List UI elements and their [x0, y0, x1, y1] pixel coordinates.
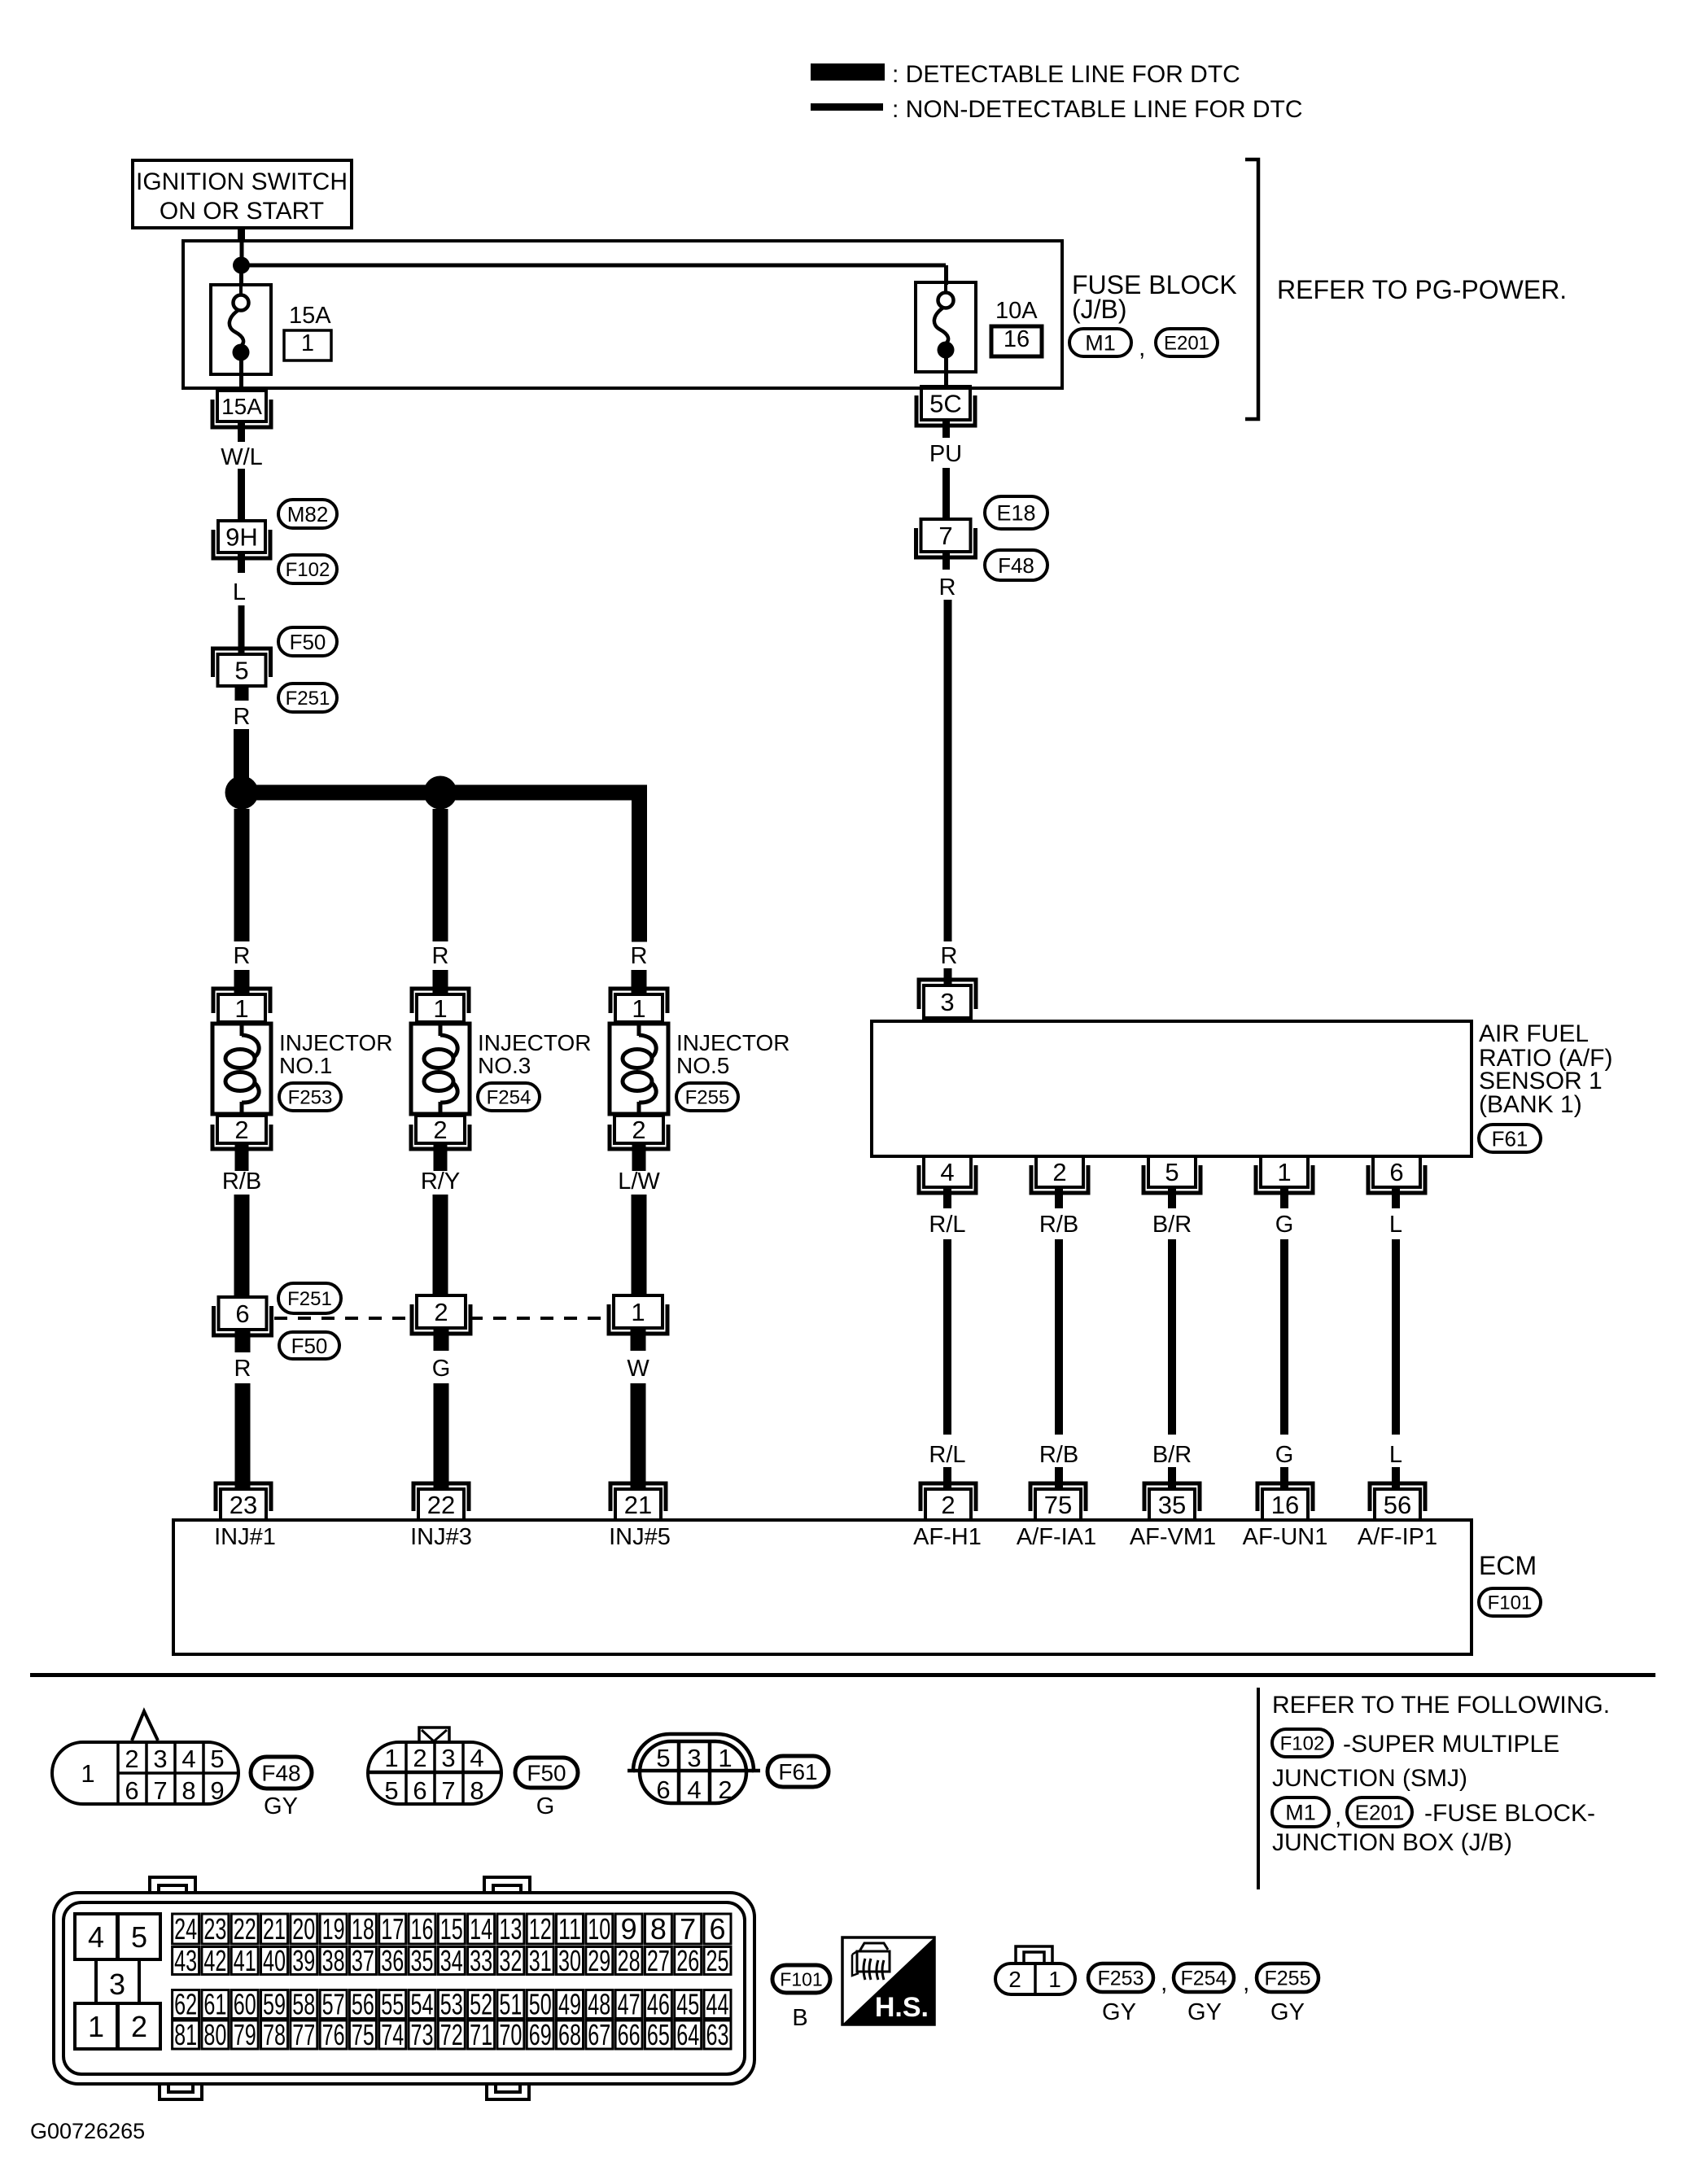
wire B/R long	[1168, 1239, 1176, 1435]
svg-text:AF-VM1: AF-VM1	[1130, 1524, 1216, 1550]
svg-text:38: 38	[322, 1944, 345, 1977]
connector F61 face	[628, 1734, 760, 1804]
svg-text:8: 8	[650, 1912, 667, 1946]
label GY F48	[264, 1793, 298, 1819]
label R lower	[234, 1356, 251, 1382]
svg-text:68: 68	[558, 2018, 581, 2051]
svg-text:14: 14	[470, 1912, 492, 1946]
svg-text:1: 1	[433, 994, 447, 1023]
svg-text:4: 4	[470, 1744, 483, 1772]
svg-text:R/B: R/B	[1039, 1442, 1078, 1468]
ECM pin label AF-H1	[913, 1524, 982, 1550]
svg-text:25: 25	[706, 1944, 729, 1977]
svg-text:F102: F102	[286, 559, 330, 581]
svg-text:F102: F102	[1280, 1733, 1325, 1755]
connector F101 pin row 24-6	[173, 1912, 731, 1946]
wire R to ECM	[235, 1383, 251, 1491]
svg-text:R: R	[234, 943, 251, 969]
text refer to the following	[1272, 1692, 1610, 1719]
svg-text:9: 9	[210, 1776, 224, 1805]
svg-text:15A: 15A	[221, 394, 262, 419]
connector 2 mid	[412, 1295, 470, 1334]
svg-text:2: 2	[125, 1745, 138, 1773]
ECM pin label INJ#3	[410, 1524, 472, 1550]
dashed link line	[274, 1317, 609, 1320]
connector F251 oval	[278, 684, 337, 712]
svg-text:F254: F254	[1181, 1968, 1227, 1990]
wire B/R sensor stub	[1168, 1186, 1176, 1208]
svg-text:5: 5	[656, 1744, 670, 1772]
label G F50	[536, 1793, 555, 1819]
svg-text:3: 3	[109, 1968, 125, 2001]
legend detectable line sample	[811, 61, 1240, 88]
svg-text:26: 26	[676, 1944, 699, 1977]
svg-text:(BANK 1): (BANK 1)	[1479, 1091, 1582, 1118]
svg-text:2: 2	[433, 1116, 447, 1144]
svg-text:M82: M82	[287, 502, 329, 526]
svg-text:REFER TO PG-POWER.: REFER TO PG-POWER.	[1277, 275, 1567, 304]
svg-text:NO.1: NO.1	[279, 1053, 332, 1078]
svg-text:7: 7	[680, 1912, 696, 1946]
ECM pin label INJ#1	[214, 1524, 276, 1550]
ECM pin label AF-UN1	[1243, 1524, 1328, 1550]
svg-text:5: 5	[1165, 1158, 1179, 1186]
svg-text:67: 67	[588, 2018, 610, 2051]
sensor pin 3	[919, 980, 976, 1018]
svg-text:F50: F50	[290, 630, 326, 654]
connector F255 oval label	[1257, 1963, 1318, 1992]
connector F101 pin row 43-25	[173, 1944, 731, 1977]
connector M82 oval	[278, 500, 337, 528]
label R	[234, 704, 251, 730]
labels GY injectors	[1102, 1999, 1305, 2025]
svg-text:F253: F253	[288, 1087, 333, 1109]
connector F253 oval	[279, 1083, 341, 1111]
svg-text:2: 2	[434, 1298, 448, 1326]
svg-text:L: L	[1389, 1442, 1402, 1468]
injector NO.5 pin 2	[610, 1116, 668, 1149]
svg-text:M1: M1	[1285, 1801, 1316, 1825]
text junction smj	[1272, 1765, 1467, 1792]
svg-text:F50: F50	[291, 1334, 328, 1358]
connector F254 oval	[478, 1083, 540, 1111]
svg-text:F48: F48	[998, 553, 1034, 578]
svg-text:G: G	[536, 1793, 555, 1819]
svg-text:71: 71	[470, 2018, 492, 2051]
svg-text:61: 61	[203, 1988, 226, 2021]
svg-text:6: 6	[1389, 1158, 1403, 1186]
label R/L upper	[929, 1212, 965, 1238]
node junction dot 2	[424, 776, 457, 810]
svg-text:12: 12	[529, 1912, 552, 1946]
svg-text:JUNCTION (SMJ): JUNCTION (SMJ)	[1272, 1765, 1467, 1792]
injector NO.3 pin 2	[411, 1116, 470, 1149]
svg-text:1: 1	[718, 1744, 732, 1772]
label G upper	[1275, 1212, 1294, 1238]
ECM pin label AF-VM1	[1130, 1524, 1216, 1550]
connector E18 oval	[985, 496, 1047, 529]
svg-text:59: 59	[263, 1988, 286, 2021]
svg-text:8: 8	[181, 1776, 195, 1805]
svg-text:1: 1	[1048, 1967, 1061, 1992]
sensor pin 2	[1031, 1156, 1088, 1193]
ECM pin 22	[413, 1483, 469, 1520]
svg-text:R: R	[234, 1356, 251, 1382]
svg-text:3: 3	[153, 1745, 167, 1773]
svg-text:49: 49	[558, 1988, 581, 2021]
wire junction horizontal 1	[242, 785, 440, 801]
svg-text:GY: GY	[264, 1793, 298, 1819]
wire PU	[942, 468, 950, 519]
label L	[233, 579, 246, 605]
svg-text:48: 48	[588, 1988, 610, 2021]
svg-text:39: 39	[292, 1944, 315, 1977]
svg-text:5: 5	[210, 1745, 224, 1773]
connector 2-1 face	[995, 1946, 1075, 1994]
connector F102 oval	[278, 555, 337, 583]
wire R thick to junction	[234, 729, 249, 778]
svg-text:6: 6	[125, 1776, 138, 1805]
svg-text:INJ#5: INJ#5	[609, 1524, 671, 1550]
svg-text:7: 7	[938, 522, 952, 550]
svg-text:34: 34	[440, 1944, 463, 1977]
svg-text:10A: 10A	[995, 298, 1038, 324]
svg-text:E201: E201	[1164, 333, 1209, 355]
svg-text:35: 35	[411, 1944, 434, 1977]
injector NO.1 pin 1	[213, 989, 270, 1023]
svg-text:JUNCTION BOX (J/B): JUNCTION BOX (J/B)	[1272, 1829, 1512, 1856]
wire G to ECM	[1280, 1467, 1288, 1491]
svg-text:2: 2	[1008, 1967, 1021, 1992]
connector F101 pin row 81-63	[173, 2018, 731, 2051]
svg-text:R: R	[941, 943, 958, 969]
svg-text:F255: F255	[685, 1087, 730, 1109]
svg-text:70: 70	[499, 2018, 522, 2051]
wire L to ECM	[1392, 1467, 1400, 1491]
svg-text:17: 17	[381, 1912, 404, 1946]
svg-text:42: 42	[203, 1944, 226, 1977]
text super multiple	[1343, 1731, 1559, 1758]
wire R stub below 5	[235, 686, 249, 701]
svg-text:6: 6	[709, 1912, 725, 1946]
label L upper	[1389, 1212, 1402, 1238]
svg-text:45: 45	[676, 1988, 699, 2021]
svg-text:10: 10	[588, 1912, 610, 1946]
svg-text:1: 1	[234, 994, 248, 1023]
label R column 3	[631, 943, 648, 969]
svg-text:M1: M1	[1085, 331, 1116, 356]
air fuel ratio sensor box	[872, 1021, 1472, 1156]
svg-text:GY: GY	[1270, 1999, 1305, 2025]
connector F251 oval mid	[278, 1283, 341, 1313]
sensor pin 5	[1144, 1156, 1200, 1193]
svg-text:31: 31	[529, 1944, 552, 1977]
connector M1 oval	[1069, 329, 1131, 356]
wire W stub below mid row	[631, 1327, 646, 1351]
svg-text:-FUSE BLOCK-: -FUSE BLOCK-	[1424, 1800, 1595, 1827]
svg-text:G00726265: G00726265	[30, 2119, 145, 2143]
sensor pin 1	[1256, 1156, 1313, 1193]
wire W/L stub	[238, 420, 245, 442]
wire R/L long	[943, 1239, 951, 1435]
label R/Y	[421, 1168, 460, 1195]
wire R column 2 lower stub	[433, 970, 448, 996]
svg-text:R/L: R/L	[929, 1442, 965, 1468]
connector F50 oval	[278, 627, 337, 656]
wire fuse1 bottom	[239, 360, 243, 391]
svg-text:AF-H1: AF-H1	[913, 1524, 982, 1550]
label R right column	[939, 574, 956, 601]
wire B/R to ECM	[1168, 1467, 1176, 1491]
svg-text:1: 1	[301, 330, 314, 356]
svg-text:52: 52	[470, 1988, 492, 2021]
svg-text:W/L: W/L	[221, 444, 263, 470]
svg-text:R: R	[432, 943, 449, 969]
wire L	[238, 605, 245, 656]
svg-text:80: 80	[203, 2018, 226, 2051]
svg-text:G: G	[432, 1356, 451, 1382]
wire R/L to ECM	[943, 1467, 951, 1491]
connector F101 oval label	[772, 1965, 830, 1993]
svg-text:1: 1	[1277, 1158, 1291, 1186]
injector NO.3 body coil	[411, 1024, 470, 1114]
connector 5	[213, 649, 271, 686]
svg-text:9: 9	[621, 1912, 637, 1946]
ECM pin label INJ#5	[609, 1524, 671, 1550]
ignition switch box	[133, 160, 352, 228]
svg-text:3: 3	[940, 988, 954, 1016]
ECM pin 35	[1144, 1483, 1200, 1520]
wire G long	[1280, 1239, 1288, 1435]
svg-text:6: 6	[235, 1299, 249, 1328]
svg-text:69: 69	[529, 2018, 552, 2051]
text fuse block note	[1424, 1800, 1595, 1827]
wire junction to left fuse	[239, 273, 243, 286]
svg-text:R: R	[631, 943, 648, 969]
node junction in fuse block	[233, 257, 250, 274]
label R column 2	[432, 943, 449, 969]
wire R/B	[234, 1195, 250, 1297]
svg-text:4: 4	[181, 1745, 195, 1773]
label R column 1	[234, 943, 251, 969]
injector NO.1 body coil	[212, 1024, 271, 1114]
svg-text:73: 73	[411, 2018, 434, 2051]
svg-text:8: 8	[470, 1776, 483, 1805]
label R above sensor	[941, 943, 958, 969]
svg-text:35: 35	[1158, 1491, 1186, 1519]
wire W to ECM	[631, 1383, 646, 1491]
injector NO.3 pin 1	[412, 989, 469, 1023]
svg-text:2: 2	[632, 1116, 645, 1144]
svg-text:(J/B): (J/B)	[1072, 295, 1127, 324]
ECM pin 21	[610, 1483, 666, 1520]
svg-text:2: 2	[234, 1116, 248, 1144]
label L/W	[618, 1168, 660, 1195]
svg-text:20: 20	[292, 1912, 315, 1946]
svg-text:R: R	[939, 574, 956, 601]
sensor pin 6	[1368, 1156, 1425, 1193]
svg-text:3: 3	[441, 1744, 455, 1772]
sensor label	[1479, 1020, 1612, 1118]
svg-text:6: 6	[413, 1776, 426, 1805]
connector F48 face	[52, 1711, 238, 1805]
svg-text:F101: F101	[1488, 1592, 1533, 1614]
svg-text:: DETECTABLE LINE FOR DTC: : DETECTABLE LINE FOR DTC	[892, 61, 1240, 88]
text junction box jb	[1272, 1829, 1512, 1856]
wire G stub below mid row	[434, 1327, 449, 1351]
svg-text:G: G	[1275, 1442, 1294, 1468]
svg-text:NO.3: NO.3	[478, 1053, 531, 1078]
refer following divider	[1257, 1688, 1260, 1889]
svg-text:R/Y: R/Y	[421, 1168, 460, 1195]
svg-text:GY: GY	[1187, 1999, 1222, 2025]
svg-text:AIR FUEL: AIR FUEL	[1479, 1020, 1589, 1047]
wire junction to right fuse	[241, 264, 948, 286]
svg-text:16: 16	[411, 1912, 434, 1946]
svg-text:,: ,	[1335, 1803, 1341, 1830]
wire L stub	[238, 551, 245, 573]
svg-text:1: 1	[88, 2010, 104, 2043]
svg-text:ON OR START: ON OR START	[160, 198, 324, 225]
ECM box	[173, 1520, 1472, 1654]
label L lower	[1389, 1442, 1402, 1468]
label R/B lower	[1039, 1442, 1078, 1468]
svg-text:2: 2	[131, 2010, 147, 2043]
svg-text:33: 33	[470, 1944, 492, 1977]
svg-text:2: 2	[718, 1776, 732, 1804]
connector E201 oval	[1156, 329, 1218, 356]
svg-text:51: 51	[499, 1988, 522, 2021]
svg-text:29: 29	[588, 1944, 610, 1977]
svg-text:4: 4	[88, 1920, 104, 1954]
svg-text:INJECTOR: INJECTOR	[279, 1030, 393, 1055]
wire R/B sensor stub	[1055, 1186, 1063, 1208]
wire R/B long	[1055, 1239, 1063, 1435]
ECM pin 23	[216, 1483, 271, 1520]
svg-text:A/F-IA1: A/F-IA1	[1017, 1524, 1096, 1550]
svg-text:F48: F48	[261, 1761, 300, 1786]
svg-text:G: G	[1275, 1212, 1294, 1238]
svg-text:74: 74	[381, 2018, 404, 2051]
svg-text:30: 30	[558, 1944, 581, 1977]
svg-text:75: 75	[352, 2018, 374, 2051]
svg-text:H.S.: H.S.	[875, 1992, 929, 2023]
injector NO.5 body coil	[610, 1024, 668, 1114]
comma	[1139, 334, 1145, 361]
svg-text:56: 56	[352, 1988, 374, 2021]
comma 3	[1161, 1969, 1167, 1996]
comma 4	[1243, 1969, 1249, 1996]
svg-text:32: 32	[499, 1944, 522, 1977]
svg-text:F61: F61	[778, 1759, 817, 1784]
connector F102 oval note	[1272, 1729, 1332, 1757]
svg-text:REFER TO THE FOLLOWING.: REFER TO THE FOLLOWING.	[1272, 1692, 1610, 1719]
svg-text:L: L	[1389, 1212, 1402, 1238]
sensor pin 4	[919, 1156, 976, 1193]
svg-text:F251: F251	[286, 688, 330, 710]
connector F48 oval right column	[985, 550, 1047, 580]
svg-text:1: 1	[631, 1298, 645, 1326]
svg-text:E201: E201	[1355, 1800, 1405, 1824]
svg-text:21: 21	[263, 1912, 286, 1946]
svg-text:ECM: ECM	[1479, 1551, 1537, 1580]
wire R/B stub	[235, 1142, 249, 1171]
svg-text:21: 21	[624, 1491, 652, 1519]
ECM pin 75	[1030, 1483, 1086, 1520]
svg-text:18: 18	[352, 1912, 374, 1946]
connector 9H	[213, 521, 270, 558]
harness side icon H.S.	[842, 1937, 934, 2025]
label W/L	[221, 444, 263, 470]
svg-text:66: 66	[618, 2018, 641, 2051]
svg-text:63: 63	[706, 2018, 729, 2051]
svg-text:15: 15	[440, 1912, 463, 1946]
svg-text:44: 44	[706, 1988, 729, 2021]
svg-text:23: 23	[230, 1491, 257, 1519]
svg-text:7: 7	[153, 1776, 167, 1805]
ECM pin label A/F-IA1	[1017, 1524, 1096, 1550]
svg-text:77: 77	[292, 2018, 315, 2051]
svg-text:78: 78	[263, 2018, 286, 2051]
svg-text:16: 16	[1004, 326, 1030, 352]
label R/B	[222, 1168, 261, 1195]
svg-text:-SUPER MULTIPLE: -SUPER MULTIPLE	[1343, 1731, 1559, 1758]
svg-text:E18: E18	[996, 501, 1035, 526]
connector F101 key pins	[75, 1914, 160, 2049]
connector F253 oval label	[1088, 1963, 1153, 1992]
svg-text:47: 47	[618, 1988, 641, 2021]
wire R column 1 lower stub	[234, 970, 250, 996]
svg-text:INJ#3: INJ#3	[410, 1524, 472, 1550]
svg-text:62: 62	[174, 1988, 197, 2021]
svg-text:1: 1	[384, 1744, 398, 1772]
svg-text:1: 1	[632, 994, 645, 1023]
svg-text:1: 1	[81, 1759, 94, 1788]
svg-text:,: ,	[1243, 1969, 1249, 1996]
connector M1 oval note	[1272, 1797, 1329, 1827]
svg-text:41: 41	[234, 1944, 256, 1977]
ECM pin label A/F-IP1	[1358, 1524, 1437, 1550]
svg-text:,: ,	[1161, 1969, 1167, 1996]
injector NO.5 label	[676, 1030, 790, 1078]
svg-text:L: L	[233, 579, 246, 605]
svg-text:55: 55	[381, 1988, 404, 2021]
wire R/Y	[433, 1195, 448, 1297]
svg-text:5C: 5C	[929, 390, 962, 418]
svg-text:F50: F50	[527, 1761, 566, 1786]
fuse 15A (1)	[211, 285, 271, 374]
svg-text:4: 4	[687, 1776, 701, 1804]
label R/B upper	[1039, 1212, 1078, 1238]
bracket refer pg-power	[1245, 159, 1258, 419]
connector F101 face outline	[54, 1877, 754, 2099]
svg-text:57: 57	[322, 1988, 345, 2021]
label PU	[929, 441, 962, 467]
connector F50 oval label	[515, 1758, 578, 1788]
separator line	[30, 1673, 1655, 1677]
connector F48 oval label	[251, 1757, 312, 1789]
svg-text:50: 50	[529, 1988, 552, 2021]
svg-text:B/R: B/R	[1152, 1212, 1192, 1238]
connector F255 oval	[676, 1083, 738, 1111]
label G lower	[432, 1356, 451, 1382]
wire L/W stub	[632, 1142, 646, 1171]
wire PU stub	[942, 418, 950, 438]
svg-text:F254: F254	[487, 1087, 531, 1109]
svg-text:64: 64	[676, 2018, 699, 2051]
svg-text:76: 76	[322, 2018, 345, 2051]
injector NO.1 pin 2	[212, 1116, 271, 1149]
